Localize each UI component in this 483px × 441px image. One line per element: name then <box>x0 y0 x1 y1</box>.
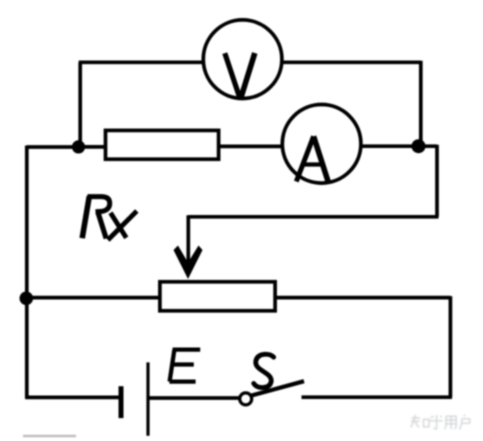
wire rheostat right lead <box>275 296 450 300</box>
wire top-left vertical from node A up to voltmeter loop <box>78 62 82 147</box>
wire node C to rheostat left lead <box>27 296 160 300</box>
battery E negative plate (short thick) <box>119 386 124 418</box>
label E <box>169 350 200 382</box>
wire left rail vertical <box>25 146 29 399</box>
stray grey underline bottom-left <box>23 435 76 437</box>
voltmeter V letter <box>225 53 255 97</box>
node A junction dot <box>72 140 85 153</box>
wire ammeter to node B <box>361 144 419 148</box>
label Rx <box>82 196 137 240</box>
wire node B right jog <box>419 144 438 148</box>
switch S pivot circle <box>240 393 252 405</box>
wire right rail vertical <box>449 296 453 398</box>
resistor Rx body <box>106 130 219 159</box>
wire right vertical down to slider lead <box>435 145 439 217</box>
rheostat body <box>160 282 275 311</box>
node B junction dot <box>412 139 426 153</box>
wire node A to resistor Rx left lead <box>79 145 106 149</box>
wire resistor Rx to ammeter <box>219 145 283 149</box>
watermark 知乎用户 <box>411 415 470 430</box>
ammeter A letter <box>296 136 328 182</box>
node C junction dot <box>20 292 34 306</box>
wire battery to switch <box>150 396 240 400</box>
wire bottom rail left of battery <box>25 396 119 400</box>
wire node A to left rail corner <box>27 145 79 149</box>
label S <box>254 354 274 387</box>
ammeter A circle <box>282 105 361 184</box>
rheostat slider arrowhead <box>174 246 203 280</box>
wire top horizontal left of voltmeter <box>79 60 205 64</box>
switch S blade <box>252 381 305 395</box>
wire horizontal slider lead <box>188 215 438 219</box>
wire top-right vertical down to node B <box>419 61 423 147</box>
wire arrow stem <box>186 215 190 264</box>
battery E positive plate (long thin) <box>146 362 149 435</box>
wire switch to bottom-right corner <box>302 395 452 399</box>
voltmeter V circle <box>203 20 282 99</box>
wire top horizontal right of voltmeter <box>281 60 421 64</box>
